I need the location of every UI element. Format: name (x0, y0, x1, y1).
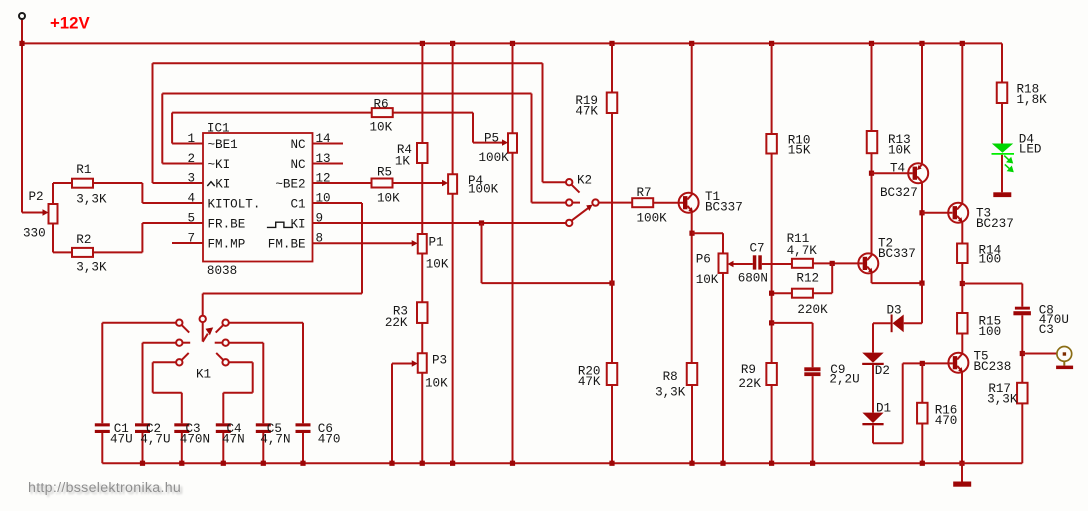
svg-text:470N: 470N (180, 432, 210, 446)
svg-text:LED: LED (1019, 143, 1042, 157)
svg-text:470: 470 (318, 432, 341, 446)
svg-text:BC237: BC237 (976, 217, 1014, 231)
svg-text:http://bsselektronika.hu: http://bsselektronika.hu (28, 480, 181, 496)
svg-text:22K: 22K (385, 316, 408, 330)
svg-text:1,8K: 1,8K (1017, 93, 1048, 107)
svg-text:P3: P3 (432, 354, 447, 368)
svg-text:1: 1 (187, 132, 195, 146)
svg-text:KI: KI (290, 218, 305, 232)
svg-text:4,7U: 4,7U (140, 432, 170, 446)
svg-text:4,7N: 4,7N (260, 432, 290, 446)
svg-text:4,7K: 4,7K (787, 244, 818, 258)
svg-text:10K: 10K (888, 143, 911, 157)
svg-text:100: 100 (979, 252, 1002, 266)
svg-text:NC: NC (290, 138, 306, 152)
svg-text:KI: KI (215, 178, 230, 192)
svg-text:D3: D3 (887, 304, 902, 318)
svg-text:330: 330 (23, 227, 46, 241)
svg-text:FM.BE: FM.BE (268, 238, 306, 252)
svg-text:R12: R12 (796, 272, 819, 286)
svg-text:8038: 8038 (207, 264, 237, 278)
svg-text:3,3K: 3,3K (76, 261, 107, 275)
svg-text:470: 470 (935, 414, 958, 428)
svg-text:47U: 47U (110, 432, 133, 446)
svg-text:47K: 47K (578, 375, 601, 389)
svg-text:3,3K: 3,3K (76, 193, 107, 207)
svg-text:FM.MP: FM.MP (208, 238, 246, 252)
svg-text:K2: K2 (577, 173, 592, 187)
svg-text:3,3K: 3,3K (987, 392, 1018, 406)
svg-text:~BE1: ~BE1 (208, 138, 238, 152)
svg-text:D1: D1 (876, 402, 891, 416)
svg-text:100K: 100K (637, 212, 668, 226)
svg-text:47N: 47N (222, 432, 245, 446)
svg-text:3: 3 (187, 172, 195, 186)
svg-text:R2: R2 (76, 233, 91, 247)
svg-text:8: 8 (316, 232, 324, 246)
svg-text:2,2U: 2,2U (829, 373, 859, 387)
svg-text:P2: P2 (29, 190, 44, 204)
svg-text:C1: C1 (290, 198, 305, 212)
svg-text:~KI: ~KI (208, 158, 231, 172)
svg-text:12: 12 (316, 172, 331, 186)
svg-text:47K: 47K (575, 105, 598, 119)
svg-text:220K: 220K (797, 303, 828, 317)
svg-text:680N: 680N (738, 272, 768, 286)
svg-text:K1: K1 (196, 368, 211, 382)
svg-text:5: 5 (187, 212, 195, 226)
svg-text:P6: P6 (696, 253, 711, 267)
svg-text:D2: D2 (875, 364, 890, 378)
svg-text:FR.BE: FR.BE (208, 218, 246, 232)
svg-text:100: 100 (979, 325, 1002, 339)
svg-text:R5: R5 (377, 166, 392, 180)
svg-text:~BE2: ~BE2 (275, 178, 305, 192)
svg-text:10K: 10K (696, 273, 719, 287)
svg-text:BC337: BC337 (705, 201, 743, 215)
svg-text:2: 2 (187, 152, 195, 166)
svg-text:R9: R9 (741, 363, 756, 377)
svg-text:KITOLT.: KITOLT. (208, 198, 261, 212)
svg-text:R1: R1 (76, 163, 91, 177)
svg-text:P5: P5 (484, 132, 499, 146)
svg-text:10K: 10K (370, 121, 393, 135)
svg-text:10K: 10K (426, 258, 449, 272)
svg-text:1K: 1K (395, 155, 411, 169)
svg-text:BC327: BC327 (880, 186, 918, 200)
svg-text:C7: C7 (750, 241, 765, 255)
svg-text:P1: P1 (429, 236, 444, 250)
svg-text:7: 7 (187, 232, 195, 246)
svg-text:13: 13 (316, 152, 331, 166)
svg-text:R6: R6 (374, 98, 389, 112)
svg-text:4: 4 (187, 192, 195, 206)
svg-text:R7: R7 (637, 186, 652, 200)
svg-text:C3: C3 (1039, 323, 1054, 337)
svg-text:NC: NC (290, 158, 306, 172)
svg-text:BC337: BC337 (878, 247, 916, 261)
svg-text:+12V: +12V (50, 14, 90, 33)
svg-text:3,3K: 3,3K (655, 385, 686, 399)
svg-text:10: 10 (316, 192, 331, 206)
svg-text:9: 9 (316, 212, 324, 226)
svg-text:R8: R8 (663, 370, 678, 384)
svg-text:10K: 10K (425, 377, 448, 391)
svg-text:22K: 22K (738, 377, 761, 391)
svg-text:T4: T4 (890, 162, 905, 176)
svg-text:15K: 15K (788, 144, 811, 158)
svg-text:IC1: IC1 (207, 122, 230, 136)
svg-text:14: 14 (316, 132, 331, 146)
svg-text:10K: 10K (377, 192, 400, 206)
svg-text:100K: 100K (468, 183, 499, 197)
svg-text:100K: 100K (479, 151, 510, 165)
svg-text:BC238: BC238 (974, 360, 1012, 374)
